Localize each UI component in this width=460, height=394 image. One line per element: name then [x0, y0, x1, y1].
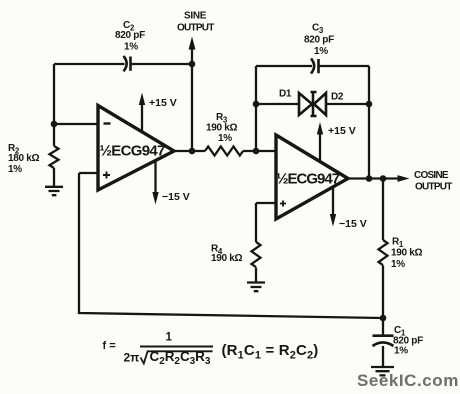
svg-text:1%: 1% [391, 259, 405, 270]
svg-text:1%: 1% [218, 133, 232, 144]
svg-text:−15 V: −15 V [339, 218, 367, 230]
svg-text:1%: 1% [314, 46, 328, 57]
svg-text:1%: 1% [394, 346, 408, 357]
svg-text:−15 V: −15 V [162, 191, 190, 203]
svg-text:D1: D1 [279, 89, 292, 100]
svg-text:f =: f = [103, 340, 116, 352]
svg-text:190 kΩ: 190 kΩ [206, 123, 238, 134]
svg-text:½ECG947: ½ECG947 [100, 143, 165, 160]
svg-text:OUTPUT: OUTPUT [415, 182, 452, 193]
svg-text:190 kΩ: 190 kΩ [211, 253, 243, 264]
svg-text:½ECG947: ½ECG947 [276, 171, 340, 188]
svg-text:1%: 1% [124, 42, 138, 53]
svg-text:OUTPUT: OUTPUT [177, 23, 214, 34]
svg-text:820 pF: 820 pF [115, 30, 145, 41]
svg-text:+15 V: +15 V [149, 97, 177, 109]
svg-text:190 kΩ: 190 kΩ [391, 248, 423, 259]
svg-text:820 pF: 820 pF [304, 35, 334, 46]
svg-text:1%: 1% [8, 164, 22, 175]
svg-text:SINE: SINE [184, 11, 207, 22]
svg-text:(R1C1 = R2C2): (R1C1 = R2C2) [222, 342, 319, 362]
svg-text:SeekIC.com: SeekIC.com [357, 371, 459, 390]
svg-text:D2: D2 [331, 92, 344, 103]
svg-text:2π: 2π [124, 351, 140, 365]
svg-text:180 kΩ: 180 kΩ [8, 153, 40, 164]
svg-text:1: 1 [166, 332, 173, 344]
svg-text:+15 V: +15 V [328, 125, 356, 137]
svg-text:COSINE: COSINE [414, 170, 449, 181]
